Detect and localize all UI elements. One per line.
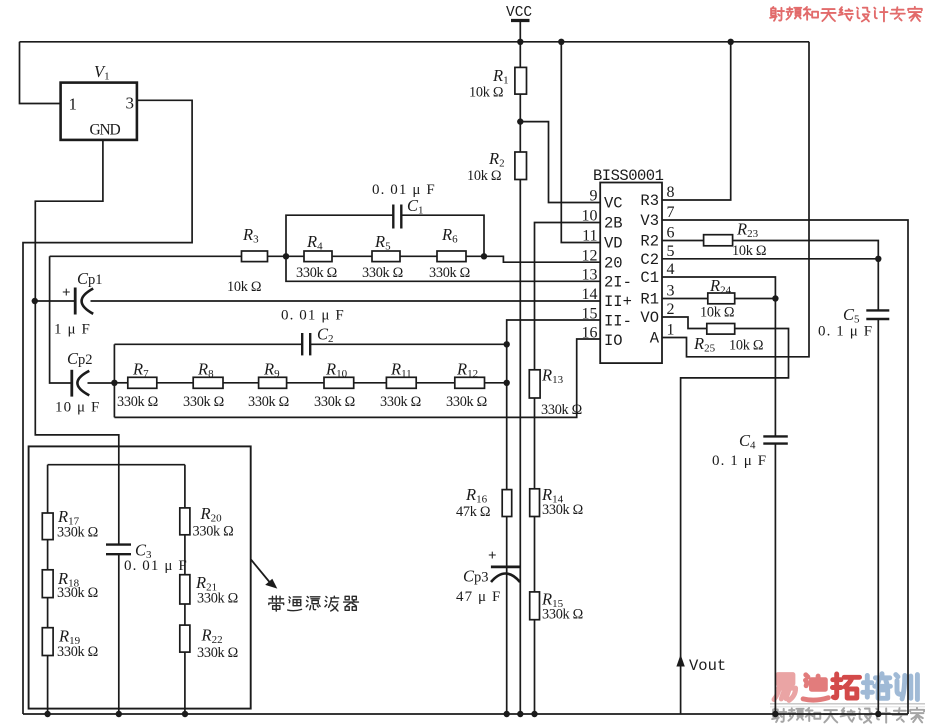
wire C2 branch vert — [113, 344, 115, 417]
svg-text:10k Ω: 10k Ω — [700, 305, 734, 321]
svg-text:330k Ω: 330k Ω — [429, 265, 470, 281]
svg-text:C5: C5 — [843, 305, 860, 326]
svg-text:2I-: 2I- — [604, 274, 632, 292]
wire R3-R4 — [268, 255, 305, 257]
wire V1 GND trace — [35, 140, 119, 545]
svg-text:330k Ω: 330k Ω — [541, 402, 582, 418]
svg-text:R22: R22 — [201, 626, 223, 647]
svg-text:R2: R2 — [488, 149, 505, 170]
op-amp IC U1 BISS0001 — [600, 183, 662, 364]
svg-text:R10: R10 — [325, 360, 348, 381]
watermark bottom slogan — [772, 708, 786, 722]
svg-text:R3: R3 — [640, 192, 659, 210]
wire R4-R5 — [332, 255, 372, 257]
junction rail C4 — [772, 711, 778, 717]
svg-text:V3: V3 — [640, 212, 659, 230]
wire pin8 to VCC — [662, 42, 731, 200]
wire pin6 to R23 — [662, 240, 704, 242]
svg-text:330k Ω: 330k Ω — [446, 394, 487, 410]
svg-text:C2: C2 — [640, 251, 659, 269]
wire R16 to rail through Cp3 — [506, 517, 508, 715]
wire R7 chain b — [157, 382, 193, 384]
svg-text:C2: C2 — [317, 325, 334, 346]
wire R1 bottom to R2 top — [519, 94, 521, 152]
svg-text:13: 13 — [582, 267, 598, 284]
svg-text:330k Ω: 330k Ω — [57, 585, 98, 601]
wire C2 left — [114, 343, 301, 345]
svg-text:R9: R9 — [263, 360, 280, 381]
svg-text:R12: R12 — [456, 360, 478, 381]
svg-text:3: 3 — [126, 94, 135, 113]
resistor R22 — [180, 625, 190, 652]
svg-text:R3: R3 — [242, 225, 259, 246]
svg-text:R2: R2 — [640, 233, 659, 251]
svg-text:Vout: Vout — [689, 657, 726, 675]
svg-text:5: 5 — [667, 243, 675, 260]
svg-text:330k Ω: 330k Ω — [193, 524, 234, 540]
svg-text:20: 20 — [604, 254, 623, 272]
wire C2 right — [311, 343, 507, 345]
annotation arrow — [251, 560, 270, 582]
svg-text:0. 1 μ F: 0. 1 μ F — [818, 324, 873, 340]
watermark top-right slogan — [770, 7, 784, 21]
svg-text:R23: R23 — [736, 220, 759, 241]
wire R7 chain a — [114, 382, 127, 384]
svg-text:330k Ω: 330k Ω — [380, 394, 421, 410]
wire R5-R6 — [400, 255, 437, 257]
resistor R16 — [502, 490, 512, 517]
wire pin2 VO to R25 — [662, 317, 707, 329]
wire R17 top — [47, 465, 49, 513]
wire R1 top — [519, 42, 521, 68]
resistor R19 — [42, 628, 53, 656]
svg-text:12: 12 — [582, 247, 598, 264]
capacitor C1 — [392, 205, 394, 229]
svg-text:9: 9 — [590, 188, 598, 205]
resistor R6 — [437, 251, 466, 262]
resistor R2 — [515, 152, 527, 180]
svg-text:47 μ F: 47 μ F — [456, 589, 501, 605]
junction rail R2 — [517, 711, 523, 717]
wire R7 chain d — [287, 382, 324, 384]
wire 2I- branch — [286, 256, 600, 281]
svg-text:4: 4 — [667, 261, 675, 278]
wire R22 to rail — [184, 652, 186, 714]
resistor R17 — [42, 513, 53, 540]
junction rail R17 — [44, 711, 50, 717]
svg-text:Cp2: Cp2 — [67, 349, 93, 368]
wire Cp1 to pin14 — [91, 300, 601, 302]
junction R1-R2 node — [517, 118, 523, 124]
junction rail Cp3 — [504, 711, 510, 717]
svg-text:10k Ω: 10k Ω — [467, 168, 501, 184]
svg-text:330k Ω: 330k Ω — [296, 265, 337, 281]
svg-text:+: + — [62, 285, 71, 301]
wire bottom ground rail — [23, 713, 908, 715]
svg-text:330k Ω: 330k Ω — [248, 394, 289, 410]
svg-text:R8: R8 — [197, 360, 214, 381]
junction rail C3 — [116, 711, 122, 717]
svg-text:10k Ω: 10k Ω — [732, 243, 766, 259]
resistor R25 — [707, 324, 735, 335]
svg-text:14: 14 — [582, 286, 598, 303]
wire pin3 to R24 — [662, 298, 708, 300]
wire R20 top — [184, 465, 186, 508]
svg-text:10 μ F: 10 μ F — [55, 400, 100, 416]
svg-text:C1: C1 — [407, 196, 424, 217]
svg-text:0. 1 μ F: 0. 1 μ F — [712, 453, 767, 469]
svg-text:330k Ω: 330k Ω — [117, 394, 158, 410]
watermark logo 易迪拓培训 — [774, 675, 796, 701]
wire R7 chain f — [416, 382, 455, 384]
wire R13 to R14 — [534, 398, 536, 489]
wire R7 chain g — [485, 382, 507, 384]
resistor R23 — [704, 235, 733, 246]
svg-text:10k Ω: 10k Ω — [227, 279, 261, 295]
junction VCC-R1 — [517, 39, 523, 45]
svg-text:+: + — [488, 548, 497, 564]
wire VCC to pin11 — [561, 42, 600, 243]
junction Cp1 left — [32, 298, 38, 304]
svg-text:330k Ω: 330k Ω — [57, 644, 98, 660]
wire pin1 A to VCC — [662, 42, 809, 357]
svg-text:V1: V1 — [94, 62, 110, 83]
junction VCC-pin11 — [558, 39, 564, 45]
Vout output arrow — [676, 655, 684, 667]
capacitor C4 — [763, 435, 788, 437]
wire R23 to C5 — [733, 241, 879, 311]
svg-text:330k Ω: 330k Ω — [542, 607, 583, 623]
svg-text:7: 7 — [667, 204, 675, 221]
svg-text:R6: R6 — [441, 225, 458, 246]
svg-text:1: 1 — [69, 95, 78, 114]
resistor R14 — [530, 489, 540, 517]
svg-text:A: A — [650, 330, 660, 348]
resistor R10 — [324, 377, 354, 388]
wire C3 lower stem — [118, 554, 120, 714]
wire R1R2 junction to pin9 — [520, 122, 600, 203]
junction Cp2 out — [111, 380, 117, 386]
wire R7 chain c — [223, 382, 259, 384]
svg-text:VCC: VCC — [506, 5, 532, 21]
svg-text:Cp3: Cp3 — [463, 567, 489, 586]
resistor R13 — [529, 370, 540, 398]
junction R12 out — [504, 380, 510, 386]
svg-text:C1: C1 — [640, 269, 659, 287]
svg-text:BISS0001: BISS0001 — [593, 167, 664, 185]
svg-text:R13: R13 — [541, 366, 564, 387]
svg-text:VD: VD — [604, 235, 623, 253]
capacitor Cp2 — [70, 370, 73, 397]
svg-text:11: 11 — [582, 228, 597, 245]
capacitor C5 — [866, 309, 889, 311]
svg-text:15: 15 — [582, 306, 598, 323]
svg-text:330k Ω: 330k Ω — [197, 591, 238, 607]
capacitor Cp1 — [74, 288, 77, 315]
wire top VCC rail — [20, 41, 810, 43]
svg-text:VC: VC — [604, 195, 623, 213]
svg-text:330k Ω: 330k Ω — [362, 265, 403, 281]
svg-text:R16: R16 — [465, 485, 488, 506]
junction C2 right — [504, 341, 510, 347]
capacitor C3 — [106, 543, 131, 545]
wire R7 chain e — [354, 382, 387, 384]
annotation text 带通滤波器 (bandpass filter) — [269, 596, 284, 611]
junction C1 right / pin12 — [481, 253, 487, 259]
bandpass filter group box — [29, 446, 251, 708]
svg-text:2: 2 — [667, 301, 675, 318]
resistor R15 — [530, 592, 540, 620]
svg-text:1: 1 — [667, 322, 675, 339]
wire R17-R18 — [47, 540, 49, 570]
svg-text:10: 10 — [582, 208, 598, 225]
resistor R1 — [515, 67, 527, 94]
wire R18-R19 — [47, 598, 49, 628]
svg-text:R24: R24 — [709, 276, 732, 297]
wire R25 out to Vout line — [681, 329, 789, 715]
watermark divider — [770, 703, 925, 705]
wire Cp2 feed from R3 row — [50, 256, 71, 383]
resistor R18 — [42, 570, 53, 598]
svg-text:0. 01 μ F: 0. 01 μ F — [124, 558, 188, 574]
svg-text:R1: R1 — [492, 66, 509, 87]
wire R19 to rail — [47, 656, 49, 715]
wire R2 bottom long drop — [519, 180, 521, 715]
resistor R20 — [180, 508, 190, 535]
wire pin15 trace — [507, 320, 601, 490]
svg-text:0. 01 μ F: 0. 01 μ F — [372, 182, 436, 198]
wire left top drop — [20, 42, 61, 104]
svg-text:1 μ F: 1 μ F — [54, 322, 91, 338]
svg-text:330k Ω: 330k Ω — [542, 502, 583, 518]
wire R15 to rail — [534, 620, 536, 714]
wire R6 to pin12 jog — [466, 256, 600, 262]
sensor V1 box — [61, 83, 137, 140]
wire pin7 V3 — [662, 220, 908, 714]
resistor R12 — [455, 377, 485, 388]
wire R3 row left — [50, 255, 242, 257]
wire VCC stem — [519, 21, 521, 42]
junction VCC-pin8 — [728, 39, 734, 45]
wire pin4 to C4 — [662, 277, 775, 436]
wire C5 to rail — [877, 319, 879, 714]
resistor R8 — [193, 377, 223, 388]
junction pin5 C5 — [875, 256, 881, 262]
capacitor Cp3 — [491, 566, 520, 569]
svg-text:C4: C4 — [739, 431, 756, 452]
svg-text:16: 16 — [582, 325, 598, 342]
wire R14 to R15 — [534, 517, 536, 592]
svg-text:R25: R25 — [693, 334, 716, 355]
svg-text:330k Ω: 330k Ω — [197, 645, 238, 661]
wire Cp1 left — [35, 300, 75, 302]
resistor R9 — [259, 377, 287, 388]
svg-text:R7: R7 — [132, 360, 149, 381]
svg-text:R5: R5 — [374, 232, 391, 253]
svg-text:II-: II- — [604, 313, 632, 331]
svg-text:10k Ω: 10k Ω — [469, 85, 503, 101]
junction rail R15 — [531, 711, 537, 717]
resistor R11 — [386, 377, 416, 388]
svg-text:47k Ω: 47k Ω — [456, 504, 490, 520]
capacitor C2 — [301, 333, 303, 355]
wire 1O return — [114, 339, 600, 417]
wire filter inner top — [48, 464, 185, 466]
resistor R21 — [180, 575, 190, 604]
svg-text:II+: II+ — [604, 293, 632, 311]
junction R3 out node 2I- — [283, 253, 289, 259]
wire C1 branch right — [402, 215, 484, 256]
svg-text:3: 3 — [667, 283, 675, 300]
wire R21-R22 — [184, 604, 186, 625]
svg-text:10k Ω: 10k Ω — [729, 338, 763, 354]
junction R24 out / pin4 — [772, 295, 778, 301]
wire C4 to rail — [774, 444, 776, 714]
svg-text:330k Ω: 330k Ω — [57, 525, 98, 541]
svg-text:R11: R11 — [390, 360, 412, 381]
svg-text:GND: GND — [90, 122, 121, 139]
resistor R3 — [242, 251, 268, 262]
wire pin10 to R13 — [535, 223, 601, 370]
resistor R24 — [708, 293, 735, 304]
svg-text:R1: R1 — [640, 291, 659, 309]
svg-text:R20: R20 — [200, 504, 223, 525]
svg-text:Cp1: Cp1 — [77, 269, 103, 288]
svg-text:2B: 2B — [604, 215, 623, 233]
wire V1 pin3 — [23, 100, 192, 714]
svg-text:IO: IO — [604, 332, 623, 350]
junction rail C5 — [875, 711, 881, 717]
junction rail R22 — [182, 711, 188, 717]
wire Cp2 right — [88, 382, 115, 384]
svg-text:330k Ω: 330k Ω — [183, 394, 224, 410]
svg-text:0. 01 μ F: 0. 01 μ F — [281, 308, 345, 324]
VCC supply symbol — [511, 19, 530, 22]
svg-text:VO: VO — [640, 309, 659, 327]
resistor R4 — [304, 251, 332, 262]
wire C1 branch left — [286, 215, 393, 256]
resistor R7 — [128, 377, 157, 388]
svg-text:330k Ω: 330k Ω — [314, 394, 355, 410]
wire R20-R21 — [184, 535, 186, 575]
resistor R5 — [372, 251, 400, 262]
svg-text:6: 6 — [667, 225, 675, 242]
wire R24 out — [735, 298, 776, 300]
svg-text:8: 8 — [667, 184, 675, 201]
wire pin5 C2pin — [662, 258, 878, 260]
svg-text:R4: R4 — [306, 232, 323, 253]
